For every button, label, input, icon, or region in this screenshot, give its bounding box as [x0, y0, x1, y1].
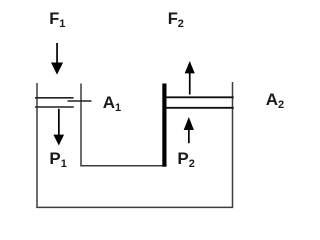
force arrow F2 (upward from right piston) [185, 61, 195, 95]
thick wall: left side of right tube [162, 84, 166, 167]
left outer wall of vessel [36, 83, 38, 208]
bottom wall of vessel [36, 206, 233, 208]
right piston top edge [166, 96, 234, 98]
pressure arrow P2 (upward inside right tube) [184, 117, 194, 143]
pressure arrow P1 (downward inside left tube) [53, 109, 64, 146]
inner wall: right side of left tube [80, 84, 82, 167]
left piston bottom edge [35, 106, 74, 108]
right piston bottom edge [166, 107, 234, 109]
right outer wall of vessel [232, 82, 234, 208]
leader line to label A1 [68, 100, 92, 102]
channel bottom connecting tubes [80, 165, 166, 167]
force arrow F1 (downward onto left piston) [51, 43, 63, 75]
left piston top edge [35, 97, 74, 99]
